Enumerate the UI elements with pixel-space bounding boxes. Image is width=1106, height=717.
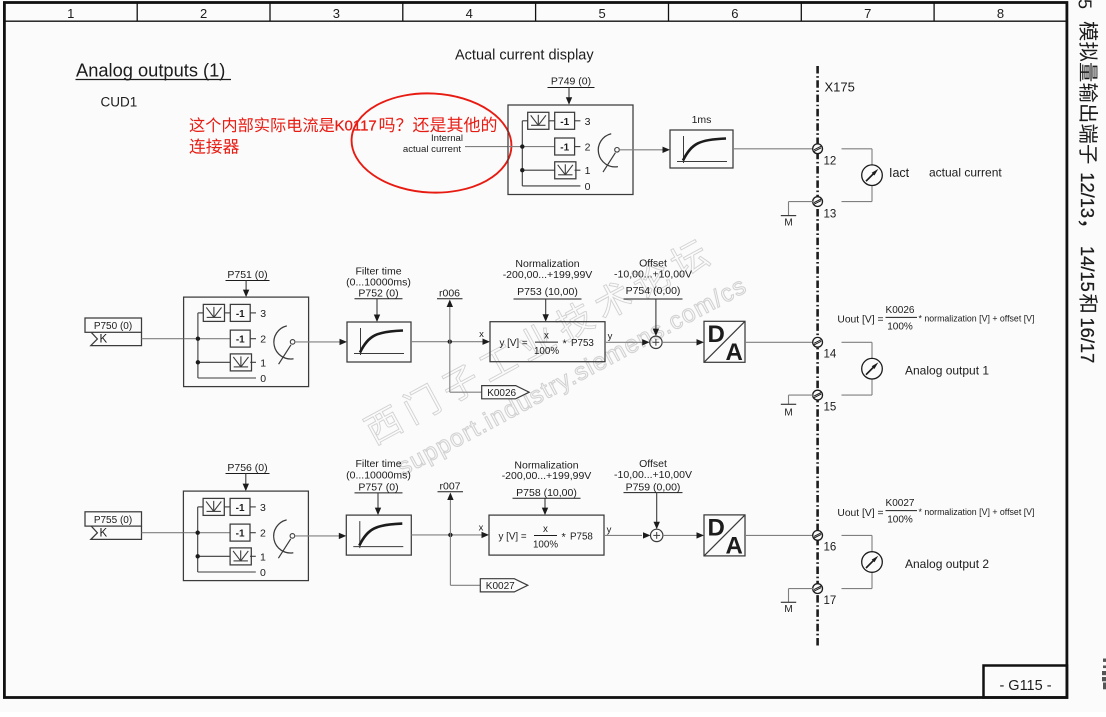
- wire D/A U10 to terminal 16: [744, 534, 813, 536]
- wire P755 to selector U7: [142, 532, 184, 534]
- svg-text:K0027: K0027: [486, 581, 515, 592]
- right margin caption (rotated): [1077, 22, 1098, 364]
- connector input P750: [85, 318, 142, 332]
- connector input P755: [85, 512, 142, 526]
- svg-text:P749 (0): P749 (0): [551, 76, 591, 88]
- svg-text:y: y: [608, 331, 613, 342]
- svg-text:14: 14: [824, 349, 837, 361]
- svg-text:CUD1: CUD1: [101, 95, 138, 110]
- svg-text:A: A: [726, 532, 743, 559]
- red annotation line 2: [190, 138, 239, 153]
- monitor tap r006: [449, 307, 451, 342]
- svg-text:-1: -1: [236, 309, 245, 320]
- svg-text:Uout [V] =: Uout [V] =: [837, 508, 883, 519]
- selector U3 (P751): [184, 297, 309, 387]
- svg-text:-200,00...+199,99V: -200,00...+199,99V: [502, 470, 592, 482]
- svg-text:D: D: [708, 514, 725, 541]
- wire normalization to summer: [605, 341, 643, 343]
- svg-text:2: 2: [260, 334, 266, 346]
- svg-text:Filter time: Filter time: [355, 458, 401, 470]
- summer S1: [650, 336, 662, 348]
- svg-text:-200,00...+199,99V: -200,00...+199,99V: [503, 269, 593, 281]
- wire normalization to summer: [604, 534, 642, 536]
- svg-text:X175: X175: [825, 80, 855, 95]
- svg-text:P752 (0): P752 (0): [358, 287, 398, 299]
- svg-text:100%: 100%: [887, 322, 913, 333]
- svg-text:12/13: 12/13: [1077, 172, 1098, 218]
- svg-text:0: 0: [260, 567, 266, 579]
- wire summer to D/A U10: [663, 534, 697, 536]
- svg-text:Internal: Internal: [431, 133, 463, 144]
- svg-text:0: 0: [585, 181, 591, 193]
- wire summer to D/A U6: [662, 341, 697, 343]
- svg-text:1ms: 1ms: [692, 114, 712, 126]
- wire terminal 12 to meter M1: [842, 148, 873, 150]
- svg-text:-10,00...+10,00V: -10,00...+10,00V: [614, 268, 692, 280]
- svg-text:1: 1: [260, 357, 266, 369]
- svg-text:P759 (0,00): P759 (0,00): [626, 482, 681, 494]
- svg-text:K0027: K0027: [886, 498, 915, 509]
- svg-text:-1: -1: [236, 503, 245, 514]
- terminal strip X175 dash-dot line: [816, 66, 819, 647]
- svg-text:0: 0: [260, 373, 266, 385]
- svg-text:P754 (0,00): P754 (0,00): [626, 285, 681, 297]
- wire selector U3 to filter P752: [295, 341, 340, 343]
- svg-text:P753: P753: [571, 338, 594, 349]
- top-right partial digit 5: [1075, 0, 1095, 9]
- svg-text:y [V] =: y [V] =: [499, 531, 527, 542]
- svg-text:16: 16: [824, 542, 837, 554]
- selector U1 (P749 actual current display): [508, 105, 633, 195]
- monitor tap r007: [449, 500, 451, 535]
- wire D/A U6 to terminal 14: [745, 341, 813, 343]
- svg-text:actual current: actual current: [929, 166, 1002, 180]
- svg-text:M: M: [784, 218, 792, 229]
- svg-text:*: *: [563, 338, 568, 350]
- terminal X175-12: [813, 144, 823, 154]
- selector U7 (P756): [183, 491, 308, 580]
- wire filter to terminal 12: [733, 148, 813, 150]
- ground M at terminal 15: [789, 394, 814, 396]
- svg-text:100%: 100%: [887, 515, 913, 526]
- svg-text:* normalization [V] + offset [: * normalization [V] + offset [V]: [919, 314, 1035, 324]
- svg-text:-1: -1: [560, 143, 569, 154]
- filter 1ms smoothing: [670, 130, 733, 168]
- svg-text:P751 (0): P751 (0): [227, 269, 267, 281]
- svg-text:x: x: [544, 331, 549, 342]
- svg-text:r006: r006: [439, 288, 460, 300]
- svg-text:A: A: [726, 339, 743, 366]
- svg-text:5: 5: [1075, 0, 1095, 9]
- svg-text:3: 3: [585, 116, 591, 128]
- svg-text:K0026: K0026: [886, 305, 915, 316]
- svg-text:P756 (0): P756 (0): [227, 462, 267, 474]
- svg-text:17: 17: [824, 595, 837, 607]
- svg-text:4: 4: [466, 6, 473, 21]
- svg-text:K: K: [100, 334, 108, 346]
- svg-text:Analog output 1: Analog output 1: [905, 364, 989, 378]
- meter M2: [862, 358, 883, 379]
- terminal X175-14: [813, 337, 823, 347]
- junction node r006/K0026: [448, 340, 452, 344]
- wire meter M1 to terminal 13: [871, 186, 873, 202]
- ground M at terminal 13: [789, 201, 814, 203]
- svg-text:M: M: [784, 604, 792, 615]
- svg-text:actual current: actual current: [403, 144, 461, 155]
- svg-text:2: 2: [585, 142, 591, 154]
- svg-text:M: M: [784, 408, 792, 419]
- red annotation line 1: [190, 117, 497, 135]
- normalization U5 (P753): [490, 322, 605, 362]
- svg-text:y [V] =: y [V] =: [500, 338, 528, 349]
- wire selector U1 to filter: [619, 149, 663, 151]
- meter M1: [862, 165, 883, 186]
- ground M at terminal 17: [789, 588, 814, 590]
- svg-text:Analog output 2: Analog output 2: [905, 557, 989, 571]
- svg-text:-1: -1: [236, 529, 245, 540]
- normalization U9 (P758): [489, 515, 604, 555]
- svg-text:8: 8: [997, 6, 1004, 21]
- svg-text:13: 13: [824, 208, 837, 220]
- svg-text:P753 (10,00): P753 (10,00): [517, 286, 578, 298]
- svg-text:1: 1: [260, 551, 266, 563]
- filter U8 (P757): [346, 515, 411, 555]
- svg-text:x: x: [479, 523, 484, 534]
- wire terminal 16 to meter M3: [842, 534, 873, 536]
- svg-text:1: 1: [67, 6, 74, 21]
- wire P750 to selector U3: [142, 338, 184, 340]
- svg-text:100%: 100%: [533, 540, 558, 551]
- svg-text:x: x: [543, 524, 548, 535]
- svg-text:P757 (0): P757 (0): [358, 481, 398, 493]
- svg-text:-1: -1: [560, 117, 569, 128]
- terminal X175-17: [813, 584, 823, 594]
- svg-text:1: 1: [585, 165, 591, 177]
- terminal X175-15: [813, 390, 823, 400]
- svg-text:Uout [V] =: Uout [V] =: [837, 315, 883, 326]
- svg-text:P750 (0): P750 (0): [94, 321, 132, 332]
- svg-text:K: K: [100, 527, 108, 539]
- svg-text:-1: -1: [236, 335, 245, 346]
- wire junction to connector output K0026: [449, 342, 451, 393]
- terminal X175-13: [813, 197, 823, 207]
- svg-text:* normalization [V] + offset [: * normalization [V] + offset [V]: [919, 507, 1035, 517]
- svg-text:12: 12: [824, 156, 837, 168]
- svg-text:- G115 -: - G115 -: [999, 678, 1051, 694]
- connector output K0027: [480, 579, 528, 592]
- svg-text:3: 3: [260, 502, 266, 514]
- red ellipse: [349, 89, 514, 196]
- svg-text:2: 2: [260, 528, 266, 540]
- svg-text:y: y: [607, 525, 612, 536]
- meter M3: [862, 552, 883, 573]
- wire filter U8 to normalization: [411, 534, 482, 536]
- watermark siemens url: [393, 272, 751, 481]
- svg-text:D: D: [708, 321, 725, 348]
- D/A converter U10: [704, 515, 745, 556]
- svg-text:Iact: Iact: [889, 166, 910, 180]
- svg-text:6: 6: [731, 6, 738, 21]
- svg-text:15: 15: [824, 402, 837, 414]
- watermark Chinese forum text: [361, 236, 711, 447]
- junction node r007/K0027: [448, 533, 452, 537]
- svg-text:5: 5: [598, 6, 605, 21]
- svg-text:P758: P758: [570, 531, 593, 542]
- wire internal current to selector U1: [465, 146, 508, 148]
- svg-text:r007: r007: [439, 481, 460, 493]
- bottom-right clipped text fragments: [1102, 659, 1106, 690]
- svg-text:3: 3: [333, 6, 340, 21]
- svg-text:*: *: [562, 531, 567, 543]
- D/A converter U6: [704, 321, 745, 362]
- svg-text:(0...10000ms): (0...10000ms): [346, 470, 411, 482]
- svg-text:16/17: 16/17: [1077, 318, 1098, 364]
- svg-text:x: x: [479, 329, 484, 340]
- wire meter M2 to terminal 15: [871, 379, 873, 395]
- svg-text:-10,00...+10,00V: -10,00...+10,00V: [614, 469, 692, 481]
- sheet label G115: [984, 666, 1068, 698]
- wire terminal 14 to meter M2: [842, 341, 873, 343]
- svg-text:14/15: 14/15: [1077, 246, 1098, 292]
- wire selector U7 to filter P757: [295, 535, 339, 537]
- svg-text:P755 (0): P755 (0): [94, 515, 132, 526]
- svg-text:Analog outputs (1): Analog outputs (1): [76, 60, 225, 81]
- filter U4 (P752): [347, 322, 411, 362]
- svg-text:100%: 100%: [534, 346, 559, 357]
- terminal X175-16: [813, 531, 823, 541]
- svg-text:7: 7: [864, 6, 871, 21]
- wire junction to connector output K0027: [449, 535, 451, 585]
- svg-text:P758 (10,00): P758 (10,00): [516, 487, 577, 499]
- svg-text:Actual current display: Actual current display: [455, 48, 594, 64]
- wire filter U4 to normalization: [411, 341, 483, 343]
- svg-text:2: 2: [200, 6, 207, 21]
- summer S2: [651, 529, 663, 541]
- svg-text:3: 3: [260, 308, 266, 320]
- connector output K0026: [482, 386, 530, 399]
- svg-text:K0026: K0026: [487, 388, 516, 399]
- wire meter M3 to terminal 17: [871, 572, 873, 588]
